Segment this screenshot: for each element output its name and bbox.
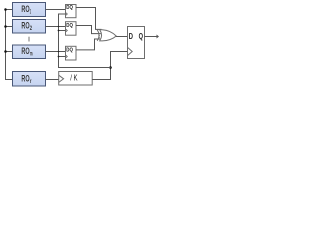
svg-text:DQ: DQ [66,5,73,11]
svg-text:RO: RO [21,74,29,84]
svg-text:Q: Q [139,31,144,41]
svg-text:RO: RO [21,4,29,14]
svg-text:DQ: DQ [66,23,73,29]
wire clock branch to DQ column [59,14,111,68]
wire ROm to DQ3 [46,51,66,53]
node bus-RO2 [4,25,7,28]
ellipsis between RO2 and ROm [28,37,29,42]
wire clock stub DQ2 [59,30,66,32]
node clock branch [109,66,112,69]
wire DQ1 output to XOR [76,8,102,30]
wire XOR output to D [116,36,128,38]
node clock-DQ2 [58,30,60,32]
node crossing RO2 wire [58,26,60,28]
ring oscillator RO1 [13,3,46,17]
enable bus [6,10,13,80]
wire DQ2 output to XOR [76,26,101,34]
flip-flop DQ1 [66,5,77,18]
output arrowhead [157,35,160,39]
wire divider output to clock net [92,52,127,80]
node clock-DQ3 [58,56,60,58]
flip-flop DQ2 [66,22,77,36]
wire clock stub DQ3 [59,56,66,58]
ring oscillator ROr [13,72,46,87]
wire RO1 input stub [6,9,13,11]
wire RO2 to DQ2 [46,26,66,28]
node crossing ROm wire [58,51,60,53]
divider /K [59,72,92,86]
svg-text:/ K: / K [70,72,78,82]
wire output [145,36,158,38]
svg-text:RO: RO [21,46,29,56]
wire RO2 input stub [6,26,13,28]
wire ROr to divider [46,79,60,81]
node bus-ROm [4,50,7,53]
flip-flop DQ3 [66,46,77,60]
svg-text:m: m [30,51,33,57]
xor gate U1 [97,30,116,41]
ring oscillator ROm [13,45,46,59]
wire RO1 to DQ1 [46,9,66,11]
svg-text:DQ: DQ [66,47,73,53]
svg-text:RO: RO [21,21,29,31]
svg-text:D: D [129,31,133,41]
flip-flop U2 D Q [128,27,145,59]
node bus-RO1 [4,8,7,11]
ellipsis XOR inputs [98,35,99,36]
wire ROm input stub [6,51,13,53]
ring oscillator RO2 [13,20,46,34]
wire DQ3 output to XOR [76,39,101,50]
